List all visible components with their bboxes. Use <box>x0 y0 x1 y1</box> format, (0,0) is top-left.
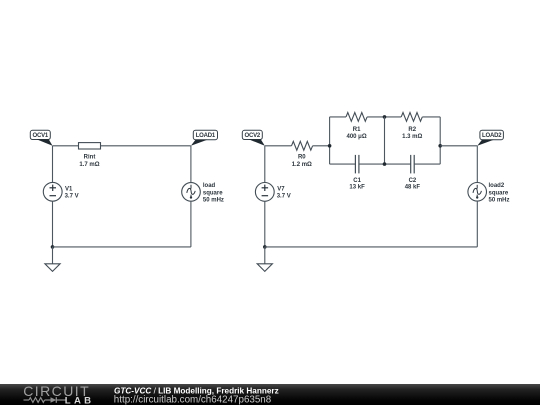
svg-text:R2: R2 <box>408 127 416 133</box>
capacitor C1 13 kF <box>349 155 365 191</box>
svg-text:400 μΩ: 400 μΩ <box>347 134 367 140</box>
wire right vertical (current source to bottom) <box>190 201 192 247</box>
svg-text:1.3 mΩ: 1.3 mΩ <box>402 134 422 140</box>
junction bottom middle <box>383 162 387 166</box>
svg-text:Rint: Rint <box>84 155 96 161</box>
svg-text:48 kF: 48 kF <box>405 184 421 190</box>
wire bottom rail right segment <box>414 163 440 165</box>
ground (right circuit) <box>257 264 272 272</box>
junction bottom (right circuit) <box>263 245 267 249</box>
wire top rail middle segment <box>367 116 401 118</box>
svg-text:V1: V1 <box>65 186 73 192</box>
svg-text:LAB: LAB <box>65 395 95 405</box>
wire (network right edge to LOAD2 node) <box>440 145 477 147</box>
wire (R0 to network left edge) <box>313 145 330 147</box>
voltage source V1 3.7 V <box>43 182 78 201</box>
wire left vertical (V1 to bottom junction) <box>52 201 54 247</box>
svg-text:http://circuitlab.com/ch64247p: http://circuitlab.com/ch64247p635n8 <box>114 394 272 405</box>
node LOAD1 (net flag) <box>191 130 218 146</box>
svg-text:square: square <box>203 190 223 196</box>
wire network right edge vertical <box>439 117 441 164</box>
svg-text:3.7 V: 3.7 V <box>277 194 291 200</box>
svg-text:load2: load2 <box>489 183 505 189</box>
wire vertical (V7 to bottom junction) <box>264 201 266 247</box>
current source load2 (square 50 mHz) <box>468 183 510 204</box>
wire vertical (current source to bottom, right circuit) <box>476 201 478 247</box>
wire top horizontal right (Rint to LOAD1 node) <box>101 145 191 147</box>
ground (left circuit) <box>45 264 60 272</box>
svg-text:3.7 V: 3.7 V <box>65 194 79 200</box>
svg-text:OCV2: OCV2 <box>245 133 261 139</box>
wire ground stem right <box>264 247 266 264</box>
wire network middle vertical <box>384 117 386 164</box>
svg-text:13 kF: 13 kF <box>349 184 365 190</box>
svg-text:square: square <box>489 190 509 196</box>
wire bottom horizontal (junction to load return) <box>53 246 191 248</box>
wire bottom rail left segment <box>330 163 356 165</box>
wire network left edge vertical <box>329 117 331 164</box>
svg-text:1.7 mΩ: 1.7 mΩ <box>79 162 99 168</box>
junction left edge <box>328 144 332 148</box>
wire left vertical (OCV1 node to V1) <box>52 146 54 183</box>
svg-text:50 mHz: 50 mHz <box>489 198 510 204</box>
junction right edge <box>438 144 442 148</box>
capacitor C2 48 kF <box>405 155 421 191</box>
wire (OCV2 node to R0) <box>265 145 292 147</box>
resistor R1 400 uOhm <box>346 113 367 141</box>
svg-text:OCV1: OCV1 <box>33 133 49 139</box>
resistor R0 1.2 mOhm <box>292 141 313 167</box>
wire top horizontal left (OCV1 node to Rint) <box>53 145 79 147</box>
wire vertical (LOAD2 node to current source) <box>476 146 478 183</box>
voltage source V7 3.7 V <box>255 183 290 202</box>
wire bottom horizontal (right circuit) <box>265 246 478 248</box>
junction top middle <box>383 115 387 119</box>
resistor Rint <box>79 143 101 168</box>
node OCV1 (net flag) <box>30 130 52 146</box>
node OCV2 (net flag) <box>242 130 264 146</box>
wire right vertical (LOAD1 node to current source) <box>190 146 192 183</box>
wire top rail right segment <box>422 116 440 118</box>
wire bottom rail middle segment <box>359 163 411 165</box>
svg-text:LOAD1: LOAD1 <box>196 133 216 139</box>
svg-text:C2: C2 <box>409 178 417 184</box>
svg-text:C1: C1 <box>353 178 361 184</box>
resistor R2 1.3 mOhm <box>401 113 422 141</box>
svg-text:50 mHz: 50 mHz <box>203 198 224 204</box>
wire ground stem left <box>52 247 54 264</box>
node LOAD2 (net flag) <box>477 130 503 146</box>
wire top rail left segment <box>330 116 346 118</box>
svg-text:1.2 mΩ: 1.2 mΩ <box>292 162 312 168</box>
svg-text:R0: R0 <box>298 155 306 161</box>
svg-text:R1: R1 <box>353 127 361 133</box>
current source load (square 50 mHz) <box>182 183 224 204</box>
junction bottom-left <box>51 245 55 249</box>
svg-text:LOAD2: LOAD2 <box>482 133 502 139</box>
wire vertical (OCV2 node to V7) <box>264 146 266 183</box>
svg-text:V7: V7 <box>277 186 285 192</box>
svg-text:load: load <box>203 183 216 189</box>
